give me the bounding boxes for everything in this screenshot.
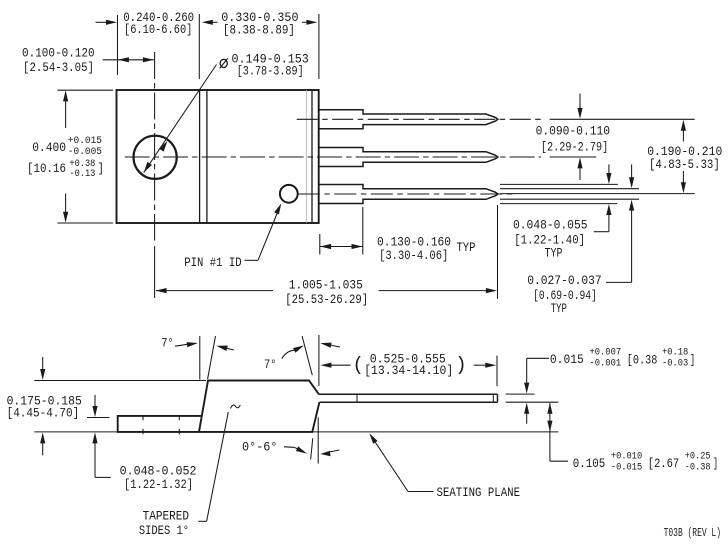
angle 0-6 deg: slant ref line xyxy=(311,438,313,459)
lead 3 extension line B (narrow top) xyxy=(500,188,639,190)
svg-text:+0.015: +0.015 xyxy=(68,135,102,146)
svg-text:0.048-0.052: 0.048-0.052 xyxy=(120,464,197,478)
lead 3 (bottom) xyxy=(319,185,498,204)
mounting hole xyxy=(134,136,177,179)
svg-text:(: ( xyxy=(353,354,364,376)
svg-text:): ) xyxy=(455,354,466,376)
svg-text:-0.38: -0.38 xyxy=(685,462,711,473)
lead 3 extension line A (wide top) xyxy=(500,183,618,185)
dim 0.048-0.055 text xyxy=(513,219,588,261)
dim 0.130-0.160 text xyxy=(377,235,475,263)
svg-text:[25.53-26.29]: [25.53-26.29] xyxy=(285,293,368,307)
svg-text:]: ] xyxy=(690,353,696,367)
tapered sides label xyxy=(139,509,189,538)
dim 0.240-0.260 text xyxy=(123,11,194,37)
svg-text:0.048-0.055: 0.048-0.055 xyxy=(513,219,588,233)
dim 0.240-0.260 arrows xyxy=(96,20,218,25)
svg-text:-0.13: -0.13 xyxy=(69,168,95,179)
dim 0.400 text xyxy=(27,135,104,179)
svg-text:[10.16: [10.16 xyxy=(27,162,66,176)
dim 0.048-0.055 arrows xyxy=(594,164,612,231)
angle 7 deg left arrows xyxy=(175,342,234,351)
body top extension line left xyxy=(34,380,206,382)
lead 2 (middle) xyxy=(319,148,498,167)
svg-text:TYP: TYP xyxy=(457,241,476,255)
tab/body step line left xyxy=(199,90,201,223)
dim 0.090-0.110 text xyxy=(536,125,610,155)
dim 0.015 extension lines xyxy=(506,393,535,395)
svg-text:TYP: TYP xyxy=(545,247,563,261)
dim 0.190-0.210 text xyxy=(647,145,722,172)
dim 0.400 extension lines xyxy=(57,89,113,91)
angle 0-6 deg arrows xyxy=(284,446,339,456)
svg-text:[2.67: [2.67 xyxy=(648,457,679,471)
tab top extension line left xyxy=(87,417,110,419)
svg-text:-0.001: -0.001 xyxy=(590,357,622,368)
dim 1.005-1.035 text xyxy=(285,278,368,307)
angle 7 deg right arrows xyxy=(282,343,340,359)
svg-text:TAPERED: TAPERED xyxy=(143,509,189,523)
dim 0.048-0.052 arrows xyxy=(92,395,110,478)
tab tick 2 xyxy=(178,416,180,434)
centerline hole vertical xyxy=(154,52,156,223)
dim 0.400 dimension line with arrows xyxy=(63,90,68,222)
svg-text:0.105: 0.105 xyxy=(573,457,606,471)
tab/body step line left 2 xyxy=(206,90,208,223)
lead 3 extension line C (center, long) xyxy=(500,193,695,195)
seating plane line xyxy=(34,431,117,433)
squiggle on body xyxy=(231,405,241,409)
svg-text:7°: 7° xyxy=(264,358,277,372)
tab tick 1 xyxy=(142,416,144,434)
svg-text:7°: 7° xyxy=(161,337,174,351)
svg-text:0.090-0.110: 0.090-0.110 xyxy=(536,125,610,139)
dim 0.105 arrows xyxy=(547,403,568,461)
dim 0.130-0.160 extension lines xyxy=(319,234,321,255)
faint ledge line right xyxy=(305,90,307,223)
lead 3 extension line D (narrow bottom) xyxy=(500,198,639,200)
body outline (side view) xyxy=(199,381,319,432)
pin #1 id circle xyxy=(280,185,298,203)
pin #1 id leader xyxy=(245,203,282,260)
svg-text:[4.83-5.33]: [4.83-5.33] xyxy=(649,158,720,172)
svg-text:]: ] xyxy=(98,162,105,176)
svg-text:[1.22-1.40]: [1.22-1.40] xyxy=(514,234,585,248)
svg-text:]: ] xyxy=(713,457,719,471)
angle 7 deg left: vertical ref line xyxy=(199,336,201,380)
svg-text:+0.18: +0.18 xyxy=(662,346,688,357)
dim 0.090-0.110 dimension lines xyxy=(550,94,695,181)
svg-text:+0.007: +0.007 xyxy=(590,346,622,357)
svg-text:[2.54-3.05]: [2.54-3.05] xyxy=(23,61,94,75)
lead 1 (top) xyxy=(319,110,498,129)
dim 0.525-0.555 text xyxy=(353,353,467,378)
tab (side view) xyxy=(118,416,202,432)
svg-text:+0.25: +0.25 xyxy=(685,451,711,462)
centerline lead 2 / hole horizontal xyxy=(125,156,541,158)
dim 0.027-0.037 text xyxy=(527,274,602,316)
angle 0-6 deg: vertical ref line xyxy=(317,417,319,463)
dim hole diameter leader xyxy=(144,65,217,173)
dim 0.100-0.120 text xyxy=(22,47,95,75)
svg-text:TYP: TYP xyxy=(551,302,567,316)
dim 0.105 text xyxy=(573,451,719,473)
dim 0.330-0.350 extension line right xyxy=(318,14,320,79)
dim 0.100-0.120 dimension line xyxy=(103,57,154,62)
svg-text:PIN #1 ID: PIN #1 ID xyxy=(184,256,242,270)
dim 0.525-0.555 extension line right xyxy=(496,356,498,387)
dim 0.190-0.210 dimension line xyxy=(681,120,686,194)
svg-text:SIDES 1°: SIDES 1° xyxy=(139,524,189,538)
dim 0.240-0.260 extension line right xyxy=(198,14,200,79)
lead 3 extension line E (wide bottom) xyxy=(500,203,617,205)
svg-text:[3.78-3.89]: [3.78-3.89] xyxy=(237,65,304,79)
dim 1.005-1.035 extension line (lead tip) xyxy=(497,205,499,299)
svg-text:[8.38-8.89]: [8.38-8.89] xyxy=(223,24,295,38)
seating plane leader xyxy=(369,433,433,491)
dim 0.175-0.185 text xyxy=(7,394,82,420)
svg-text:-0.03: -0.03 xyxy=(662,357,688,368)
centerline lead 3 xyxy=(298,193,514,195)
lead (side view) xyxy=(319,394,498,402)
svg-text:T03B (REV L): T03B (REV L) xyxy=(664,527,721,540)
svg-text:[6.10-6.60]: [6.10-6.60] xyxy=(124,23,192,37)
svg-text:+0.010: +0.010 xyxy=(611,451,642,462)
dim 0.525-0.555 arrows xyxy=(320,363,496,368)
dim 0.027-0.037 arrows xyxy=(606,164,634,282)
svg-text:-0.005: -0.005 xyxy=(68,146,102,157)
svg-text:[1.22-1.32]: [1.22-1.32] xyxy=(124,478,193,492)
angle 7 deg left: slant ref line xyxy=(208,336,216,379)
dim 0.015 arrows xyxy=(524,358,549,423)
angle 7 deg right: slant ref line xyxy=(302,336,312,375)
dim 1.005-1.035 dimension line xyxy=(156,288,497,293)
svg-text:[0.38: [0.38 xyxy=(627,353,658,367)
dim 0.330-0.350 right arrow xyxy=(302,20,317,25)
svg-text:0.130-0.160: 0.130-0.160 xyxy=(377,235,451,249)
svg-text:[0.69-0.94]: [0.69-0.94] xyxy=(533,289,597,303)
svg-text:[13.34-14.10]: [13.34-14.10] xyxy=(364,364,453,378)
dim 0.015 text xyxy=(550,346,695,368)
dim 0.048-0.052 text xyxy=(120,464,197,491)
svg-text:[2.29-2.79]: [2.29-2.79] xyxy=(541,140,608,154)
tapered sides leader xyxy=(198,412,228,521)
svg-text:1.005-1.035: 1.005-1.035 xyxy=(289,278,363,292)
svg-text:0.190-0.210: 0.190-0.210 xyxy=(647,145,722,159)
svg-text:0.400: 0.400 xyxy=(32,141,66,155)
svg-text:0.027-0.037: 0.027-0.037 xyxy=(527,274,602,288)
dim 0.130-0.160 dimension line xyxy=(320,244,363,249)
angle 7 deg right: vertical ref line xyxy=(318,335,320,386)
svg-text:0.015: 0.015 xyxy=(550,353,584,367)
svg-text:[4.45-4.70]: [4.45-4.70] xyxy=(7,406,80,420)
svg-text:SEATING PLANE: SEATING PLANE xyxy=(437,486,521,500)
svg-text:[3.30-4.06]: [3.30-4.06] xyxy=(379,249,448,263)
centerline lead 1 xyxy=(297,118,544,120)
dim 0.175-0.185 arrows xyxy=(40,357,45,455)
package body outline (top view) xyxy=(117,90,319,223)
dim 0.330-0.350 text xyxy=(221,11,298,38)
dim hole diameter text xyxy=(220,53,309,79)
ledge line right xyxy=(311,90,313,223)
svg-text:-0.015: -0.015 xyxy=(611,462,642,473)
svg-text:0.100-0.120: 0.100-0.120 xyxy=(22,47,95,61)
dim 0.240-0.260 extension line left xyxy=(117,15,119,75)
svg-text:0°-6°: 0°-6° xyxy=(242,440,278,454)
